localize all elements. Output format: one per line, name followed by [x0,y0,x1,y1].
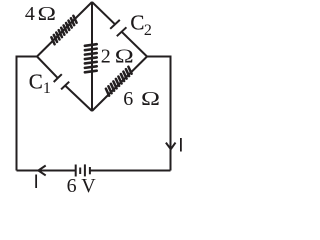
wire top-right arm segment (top vertex to C2 plate) [92,2,115,24]
resistor R1 4ohm coil [51,16,76,44]
capacitor C1 plate 1 [54,74,62,82]
battery BT1 short plate right [89,167,91,174]
svg-text:2: 2 [101,46,111,68]
wire bottom-left arm segment (C1 plate to bottom vertex) [65,86,92,111]
capacitor C2 plate 1 [110,20,120,29]
svg-text:C: C [130,10,144,34]
svg-text:2: 2 [144,22,152,39]
svg-text:I: I [34,172,39,193]
wire bottom-left arm segment (left vertex to C1 plate) [37,57,58,79]
svg-text:Ω: Ω [115,46,134,68]
wire bottom left segment [17,170,76,172]
wire arm bottom-right (bottom vertex to right vertex) [92,57,147,112]
svg-text:1: 1 [43,80,51,97]
wire top-right arm segment (C2 plate to right vertex) [122,32,147,57]
svg-text:6: 6 [123,88,133,110]
svg-text:I: I [178,136,183,157]
arrow current I right (pointing down) [166,143,176,150]
capacitor C2 plate 2 [117,27,127,36]
battery BT1 long plate right [84,164,86,176]
battery BT1 short plate [79,168,81,175]
resistor R2 2ohm coil [85,44,97,72]
wire middle vertical branch [91,2,93,111]
svg-text:4: 4 [25,3,35,25]
wire left lead [17,57,38,171]
battery BT1 long plate left [75,165,77,177]
wire bottom right segment [91,170,171,172]
svg-text:C: C [29,69,43,93]
svg-text:6 V: 6 V [67,175,97,197]
capacitor C1 plate 2 [61,82,69,90]
wire right lead [147,57,171,171]
svg-text:Ω: Ω [38,3,57,25]
svg-text:Ω: Ω [141,88,160,110]
resistor R3 6ohm coil [106,67,132,96]
arrow current I bottom (pointing left) [38,166,45,176]
wire arm top-left (top vertex to left vertex) [37,2,92,57]
